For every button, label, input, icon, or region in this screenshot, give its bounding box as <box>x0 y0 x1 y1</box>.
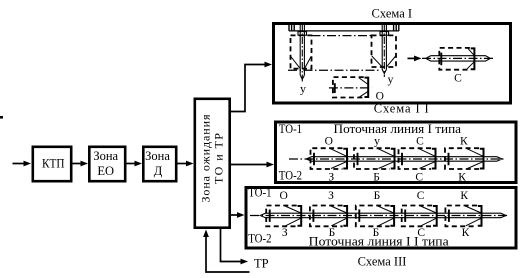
svg-text:Поточная линия I типа: Поточная линия I типа <box>334 122 462 136</box>
svg-text:Схема I I: Схема I I <box>374 102 429 116</box>
right post column <box>380 25 389 78</box>
label TO-2 line I <box>279 169 302 183</box>
svg-text:Б: Б <box>374 190 381 202</box>
svg-text:ТР: ТР <box>254 257 269 271</box>
letters bottom line I <box>328 171 466 183</box>
svg-text:К: К <box>460 190 468 202</box>
svg-text:О: О <box>280 190 288 202</box>
svg-text:О: О <box>325 135 333 147</box>
left post dashed rect <box>291 35 312 68</box>
box Shema II <box>276 122 517 183</box>
long centerline through posts <box>288 69 379 71</box>
wire Zona EO to Zona D <box>127 161 143 167</box>
station 1 line I <box>311 148 348 169</box>
svg-text:Зона: Зона <box>145 149 170 163</box>
arrow to lubrication station <box>408 56 422 62</box>
svg-text:Схема III: Схема III <box>358 255 407 269</box>
block Zona EO <box>89 147 125 181</box>
svg-text:Зона ожидания: Зона ожидания <box>198 114 212 202</box>
conveyor rod line I <box>289 157 506 162</box>
block KTP <box>33 147 71 181</box>
label flow line II type <box>309 234 449 248</box>
station 2 line I <box>354 148 395 169</box>
dash-dot top line between posts <box>312 35 376 37</box>
station 3 line II <box>356 206 394 227</box>
svg-text:ТО-1: ТО-1 <box>248 186 271 200</box>
label O <box>376 91 384 103</box>
block Zona D <box>143 147 176 181</box>
svg-text:Б: Б <box>373 171 380 183</box>
svg-text:у: у <box>300 82 306 96</box>
letters top line II <box>280 190 469 202</box>
label Shema III <box>358 255 407 269</box>
box Shema I <box>274 24 511 104</box>
label C <box>454 73 462 85</box>
svg-text:у: у <box>388 72 394 86</box>
wire: input arrow <box>13 161 32 167</box>
svg-text:у: у <box>374 133 380 147</box>
wire Zona D to waiting zone <box>178 161 194 167</box>
wire KTP to Zona EO <box>73 161 89 167</box>
svg-text:З: З <box>328 190 334 202</box>
wire waiting zone to Shema III <box>230 212 245 218</box>
label TO-2 line II <box>248 232 271 246</box>
station C dashed rect <box>439 48 474 70</box>
svg-text:Поточная линия I I типа: Поточная линия I I типа <box>309 234 449 248</box>
overhead rail <box>289 24 399 31</box>
svg-text:Д: Д <box>154 164 163 178</box>
tiny mark left edge <box>0 116 3 119</box>
svg-text:К: К <box>462 227 470 239</box>
svg-text:ТО-2: ТО-2 <box>279 169 302 183</box>
station 4 line II <box>402 206 437 227</box>
label TR <box>254 257 269 271</box>
svg-text:З: З <box>282 227 288 239</box>
label TO-1 line I <box>279 122 302 136</box>
svg-text:К: К <box>460 135 468 147</box>
station O dashed rect <box>329 77 372 97</box>
wire waiting zone to Shema II <box>230 162 274 168</box>
station 2 line II <box>310 206 347 227</box>
left post column <box>298 25 307 83</box>
svg-text:ЕО: ЕО <box>97 164 114 178</box>
label Shema II <box>374 102 429 116</box>
station 1 line II <box>266 206 301 227</box>
svg-text:С: С <box>454 73 462 85</box>
svg-text:Схема I: Схема I <box>372 7 413 21</box>
label u right <box>388 72 394 86</box>
label TO-1 line II <box>248 186 271 200</box>
wire return from TR <box>203 230 249 273</box>
station 4 line I <box>445 148 484 169</box>
box Shema III <box>246 188 516 249</box>
label flow line I type <box>334 122 462 136</box>
svg-text:Зона: Зона <box>93 149 118 163</box>
svg-text:З: З <box>328 171 334 183</box>
label u left <box>300 82 306 96</box>
wire waiting zone to TR <box>221 228 249 264</box>
right post dashed rect <box>372 35 397 67</box>
label Shema I <box>372 7 413 21</box>
conveyor rod line II <box>250 213 509 218</box>
station 5 line II <box>445 206 481 227</box>
svg-text:КТП: КТП <box>42 157 65 171</box>
svg-text:С: С <box>416 135 424 147</box>
svg-text:К: К <box>458 171 466 183</box>
block waiting zone (Zona ozhidaniya TO i TR) <box>195 99 230 228</box>
svg-text:ТО и ТР: ТО и ТР <box>211 133 225 184</box>
station 3 line I <box>399 148 436 169</box>
rod Shema I <box>422 56 494 61</box>
svg-text:С: С <box>415 171 423 183</box>
svg-text:ТО-2: ТО-2 <box>248 232 271 246</box>
letters bottom line II <box>282 227 470 239</box>
letters top line I <box>325 133 468 147</box>
svg-text:ТО-1: ТО-1 <box>279 122 302 136</box>
wire waiting zone to Shema I <box>230 62 272 112</box>
svg-text:С: С <box>417 190 425 202</box>
